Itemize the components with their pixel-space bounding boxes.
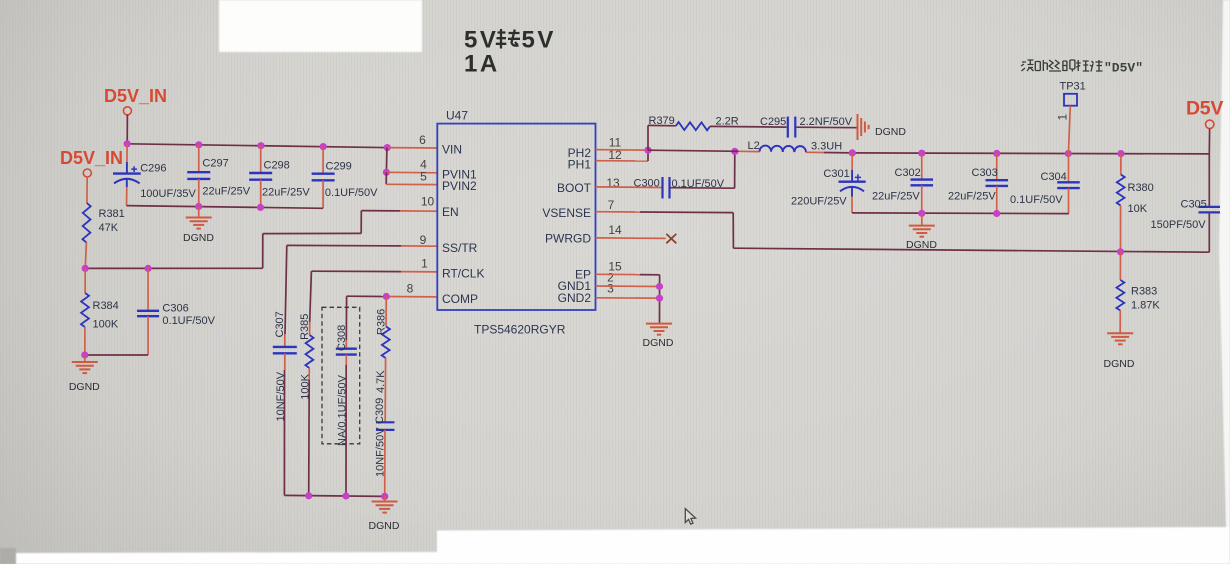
white sliver right edge: [1219, 0, 1230, 527]
junctions on input rail: [124, 140, 131, 147]
svg-text:10NF/50V: 10NF/50V: [275, 371, 287, 421]
svg-text:"D5V": "D5V": [1104, 61, 1143, 76]
svg-text:1: 1: [1056, 114, 1070, 121]
svg-text:C307: C307: [274, 311, 286, 337]
wire output caps bottom rail: [852, 212, 1069, 215]
svg-text:C298: C298: [264, 159, 290, 171]
svg-text:SS/TR: SS/TR: [442, 241, 478, 255]
svg-text:C297: C297: [202, 158, 228, 170]
svg-text:D5V: D5V: [1186, 98, 1223, 120]
svg-text:C302: C302: [895, 167, 921, 179]
svg-text:GND2: GND2: [558, 291, 592, 305]
svg-text:3.3UH: 3.3UH: [811, 141, 842, 153]
svg-text:DGND: DGND: [183, 232, 214, 244]
ground DGND bottom RC: [384, 496, 386, 501]
svg-text:5V: 5V: [464, 27, 498, 54]
svg-text:7: 7: [608, 198, 615, 212]
svg-text:220UF/25V: 220UF/25V: [791, 196, 847, 208]
svg-text:U47: U47: [446, 109, 468, 123]
testpoint TP31: [1064, 94, 1077, 106]
white band bottom right: [437, 527, 1230, 564]
capacitor C307 10NF/50V: [284, 334, 286, 347]
capacitor C298 22uF/25V: [260, 146, 262, 173]
junction R384 bottom: [81, 351, 88, 358]
capacitor C301 220UF/25V (polarized): [851, 153, 853, 170]
note: add silkscreen label D5V (chinese): [1021, 60, 1034, 71]
wire BOOT stub pin 13: [596, 186, 662, 189]
svg-text:C301: C301: [823, 168, 849, 180]
capacitor C297 22uF/25V: [198, 145, 200, 172]
resistor R381 47K: [86, 177, 88, 203]
ground DGND output caps: [921, 213, 923, 225]
capacitor C305 150PF/50V: [1208, 154, 1210, 207]
resistor R386 4.7K: [385, 297, 387, 327]
svg-text:DGND: DGND: [369, 520, 400, 532]
svg-text:EN: EN: [442, 205, 459, 219]
wire PH rail to L2: [648, 150, 739, 151]
wire GND1 stub pin 2: [596, 285, 660, 288]
wire to C308: [345, 296, 347, 340]
svg-text:150PF/50V: 150PF/50V: [1151, 219, 1207, 231]
svg-text:3: 3: [607, 282, 614, 296]
wire PH1 stub pin 12: [596, 160, 649, 162]
svg-text:47K: 47K: [99, 222, 119, 234]
svg-text:C309: C309: [374, 398, 386, 424]
svg-text:D5V_IN: D5V_IN: [60, 148, 123, 168]
wire L2 to output rail: [806, 151, 824, 153]
wire VIN stub pin 6: [387, 147, 437, 149]
svg-text:D5V_IN: D5V_IN: [104, 86, 167, 106]
wire SS/TR net: [401, 245, 438, 247]
svg-text:22uF/25V: 22uF/25V: [262, 186, 310, 198]
dark corner bottom left: [0, 548, 16, 564]
resistor R380 10K: [1120, 154, 1122, 175]
svg-text:22uF/25V: 22uF/25V: [948, 191, 996, 203]
wire EP/GND vertical: [659, 275, 661, 324]
wire D5V port to rail: [1208, 129, 1210, 154]
resistor R385 100K: [309, 322, 311, 335]
ground DGND under R384: [84, 355, 86, 362]
wire PVIN2 stub pin 5: [385, 172, 387, 184]
svg-text:RT/CLK: RT/CLK: [442, 266, 484, 280]
svg-text:100K: 100K: [93, 319, 119, 331]
svg-text:6: 6: [419, 133, 426, 147]
no-connect X on PWRGD: [666, 234, 676, 243]
wire C300 to PH: [671, 187, 735, 190]
wire port1 to input rail: [126, 115, 128, 144]
svg-text:BOOT: BOOT: [557, 181, 592, 195]
svg-text:C305: C305: [1181, 199, 1207, 211]
svg-text:9: 9: [420, 233, 427, 247]
svg-text:TPS54620RGYR: TPS54620RGYR: [474, 323, 566, 337]
svg-text:100UF/35V: 100UF/35V: [140, 188, 196, 200]
wire C295 to ground: [797, 126, 857, 129]
wire RT/CLK net: [401, 271, 438, 273]
svg-text:C295: C295: [760, 116, 786, 128]
svg-text:NA/0.1UF/50V: NA/0.1UF/50V: [337, 374, 349, 446]
capacitor C302 22uF/25V: [921, 153, 923, 179]
junctions bottom RC rail: [305, 492, 312, 499]
svg-text:R383: R383: [1131, 285, 1157, 297]
svg-text:8: 8: [407, 281, 414, 295]
ground DGND under R383: [1107, 332, 1133, 334]
junction PH node: [644, 147, 651, 154]
white window top: [219, 0, 422, 52]
svg-text:0.1UF/50V: 0.1UF/50V: [1010, 194, 1063, 206]
svg-text:R380: R380: [1128, 182, 1154, 194]
svg-text:14: 14: [608, 223, 622, 237]
op-amp/regulator U47 TPS54620RGYR: [437, 124, 595, 310]
resistor R384 100K: [84, 268, 86, 293]
svg-text:0.1UF/50V: 0.1UF/50V: [325, 187, 378, 199]
capacitor C306 0.1UF/50V: [147, 268, 149, 310]
svg-text:1.87K: 1.87K: [1131, 300, 1160, 312]
wire to snubber R379: [647, 125, 649, 150]
wire input caps bottom rail: [127, 206, 324, 209]
ground DGND rotated at C295: [857, 114, 859, 140]
mouse cursor: [685, 509, 695, 525]
svg-text:VIN: VIN: [442, 143, 462, 157]
junctions output rail: [849, 149, 856, 156]
svg-text:10: 10: [421, 194, 435, 208]
svg-text:10K: 10K: [1128, 203, 1148, 215]
capacitor C296 (polarized 100UF/35V): [126, 144, 128, 162]
wire EN net: [400, 210, 438, 212]
junctions EN node: [82, 265, 89, 272]
svg-text:22uF/25V: 22uF/25V: [202, 185, 250, 197]
capacitor C299 0.1UF/50V: [322, 147, 324, 174]
wire TP31 to rail: [1068, 106, 1070, 154]
wire GND2 stub pin 3: [596, 297, 660, 299]
svg-text:5V: 5V: [522, 27, 556, 54]
junction BOOT-PH: [731, 148, 738, 155]
wire R379 to C295: [710, 125, 787, 128]
wire PVIN1 stub pin 4: [386, 171, 437, 174]
resistor R379 2.2R: [676, 122, 710, 130]
svg-text:VSENSE: VSENSE: [542, 206, 591, 220]
svg-text:PH1: PH1: [568, 157, 592, 171]
svg-text:R385: R385: [299, 314, 311, 340]
svg-text:DGND: DGND: [643, 337, 674, 349]
wire C306 bottom to R384: [85, 354, 148, 356]
svg-text:L2: L2: [748, 140, 760, 152]
wire PWRGD stub pin 14: [596, 237, 666, 240]
svg-text:C308: C308: [336, 325, 348, 351]
svg-text:C296: C296: [140, 163, 166, 175]
svg-text:5: 5: [420, 169, 427, 183]
node input rail: [127, 144, 387, 148]
svg-text:1: 1: [421, 256, 428, 270]
capacitor C300 0.1UF/50V: [661, 177, 663, 199]
svg-text:R379: R379: [649, 115, 675, 127]
wire EP stub pin 15: [596, 273, 641, 275]
wire VSENSE feedback net: [596, 211, 641, 213]
inductor L2 3.3UH: [760, 146, 806, 153]
chinese char zhuan in title: [496, 29, 507, 49]
svg-text:DGND: DGND: [875, 126, 906, 138]
svg-text:C299: C299: [326, 161, 352, 173]
wire bottom RC rail: [284, 495, 384, 496]
node output rail D5V: [852, 153, 1209, 154]
svg-text:TP31: TP31: [1060, 81, 1086, 93]
svg-text:R381: R381: [99, 208, 125, 220]
wire COMP net: [386, 296, 437, 298]
svg-text:C303: C303: [972, 167, 998, 179]
svg-text:C300: C300: [634, 177, 660, 189]
svg-text:PVIN2: PVIN2: [442, 179, 477, 193]
svg-text:C306: C306: [162, 303, 188, 315]
svg-text:C304: C304: [1041, 171, 1067, 183]
wire PVIN branch: [385, 148, 388, 173]
capacitor C304 0.1UF/50V: [1068, 154, 1070, 183]
capacitor C308 NA/0.1UF/50V: [345, 340, 347, 349]
junction PVIN: [383, 169, 390, 176]
junctions output caps bottom: [918, 210, 925, 217]
ground DGND under IC: [646, 323, 672, 325]
svg-text:1A: 1A: [464, 51, 500, 78]
junctions GND pins: [656, 283, 663, 290]
svg-text:0.1UF/50V: 0.1UF/50V: [162, 315, 215, 327]
svg-text:10NF/50V: 10NF/50V: [375, 427, 387, 477]
resistor R383 1.87K: [1119, 252, 1121, 280]
junction COMP node: [383, 293, 390, 300]
svg-text:R386: R386: [376, 309, 388, 335]
svg-text:R384: R384: [93, 300, 119, 312]
capacitor C303 22uF/25V: [996, 153, 998, 180]
capacitor C295 2.2NF/50V: [787, 117, 789, 138]
svg-text:100K: 100K: [300, 373, 312, 399]
dashed box around C308: [322, 307, 360, 444]
ground DGND input caps: [198, 207, 200, 218]
svg-text:DGND: DGND: [1104, 358, 1135, 370]
svg-text:2.2NF/50V: 2.2NF/50V: [800, 116, 853, 128]
junction feedback node: [1117, 248, 1124, 255]
junctions input caps bottom: [195, 203, 202, 210]
capacitor C309 10NF/50V (series): [384, 358, 386, 422]
svg-text:COMP: COMP: [442, 292, 478, 306]
svg-text:PWRGD: PWRGD: [545, 231, 591, 245]
svg-text:22uF/25V: 22uF/25V: [872, 190, 920, 202]
white band bottom left: [16, 552, 437, 564]
svg-text:DGND: DGND: [69, 381, 100, 393]
wire PH2 stub pin 11: [596, 149, 649, 152]
